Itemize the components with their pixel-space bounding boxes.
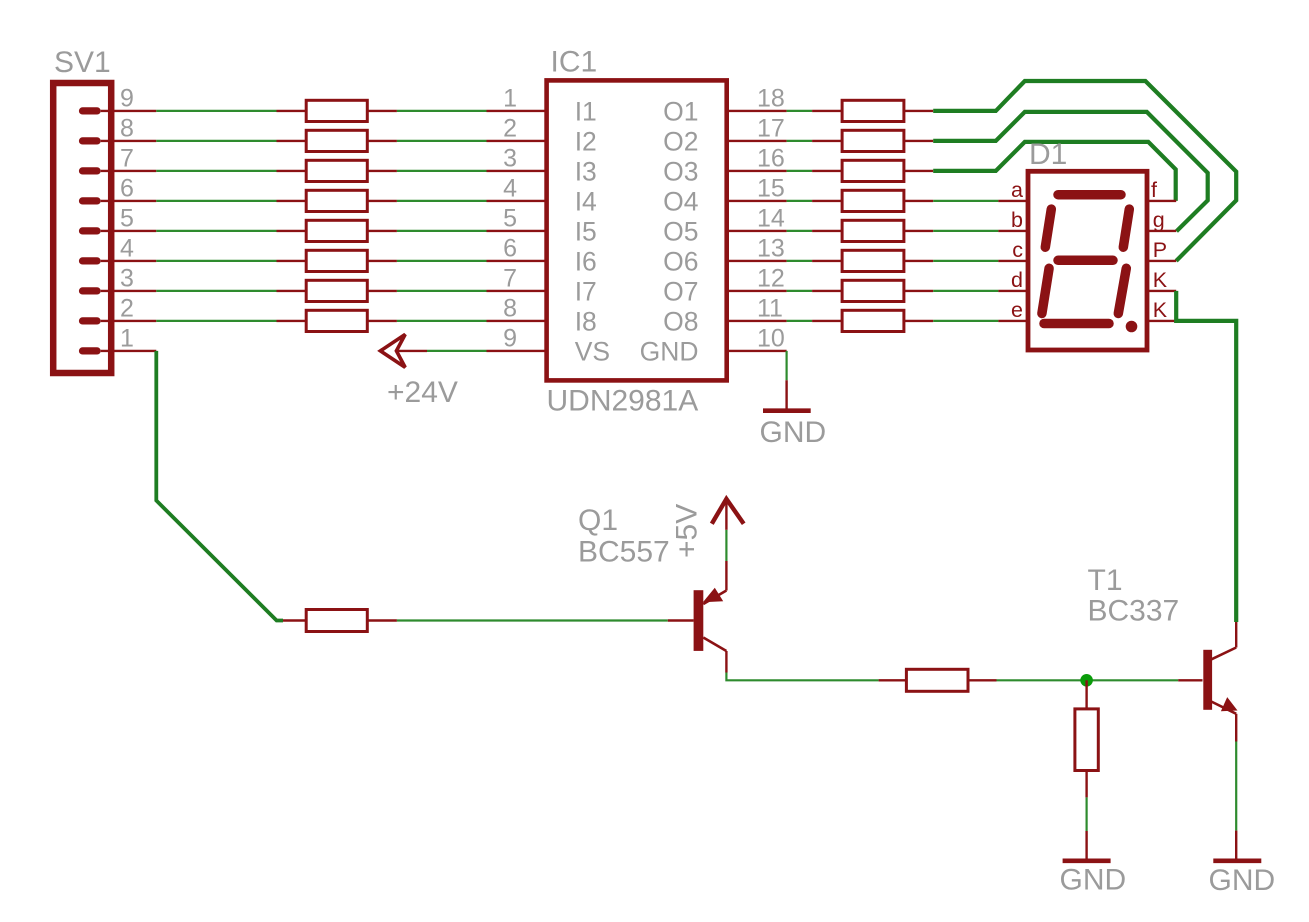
IC1 right pin 12 (O7) [727, 290, 787, 292]
connector SV1 pin 6 pad [79, 197, 156, 204]
svg-text:GND: GND [1209, 864, 1276, 897]
wire net left resistor to IC1 pin 2 [397, 140, 487, 142]
T1 label [1088, 564, 1123, 597]
IC1 pin name GND [640, 336, 699, 366]
svg-text:I2: I2 [575, 126, 597, 156]
IC1 right pin 13 (O6) [727, 260, 787, 262]
transistor T1 base pin [1178, 679, 1202, 681]
svg-text:c: c [1012, 238, 1023, 262]
svg-text:SV1: SV1 [54, 46, 111, 79]
D1 right pin K [1147, 290, 1176, 292]
supply symbol +24V arrow [380, 334, 427, 367]
transistor Q1 body [694, 561, 727, 673]
IC1 pin number 5 [503, 205, 517, 233]
D1 left pin a [998, 200, 1028, 202]
IC1 pin number 14 [757, 205, 785, 233]
IC1 left pin 5 (I5) [487, 230, 547, 232]
svg-text:1: 1 [503, 85, 517, 113]
svg-text:15: 15 [757, 175, 785, 203]
D1 left pin d [998, 290, 1028, 292]
wire net SV1 pin 2 to left resistor row 8 [156, 320, 276, 322]
wire net IC1 pin 16 to right resistor row 3 [787, 170, 813, 172]
wire net right resistor to display pin e [933, 320, 998, 322]
IC1 pin name O7 [663, 276, 698, 306]
svg-text:3: 3 [503, 145, 517, 173]
connector SV1 pin number 8 [120, 115, 134, 143]
IC1 pin name I4 [575, 186, 597, 216]
svg-text:I4: I4 [575, 186, 597, 216]
wire net IC1 pin 15 to right resistor row 4 [787, 200, 813, 202]
op-amp / driver IC1 UDN2981A body [547, 80, 727, 380]
supply label +24V [387, 376, 458, 409]
ground label GND (left bottom) [1060, 864, 1127, 897]
wire net IC1 pin 18 to right resistor row 1 [787, 110, 813, 112]
wire net T1 emitter to ground [1235, 742, 1237, 831]
svg-text:+24V: +24V [387, 376, 458, 409]
IC1 right pin 10 (GND) [727, 350, 787, 352]
wire net IC1 pin 13 to right resistor row 6 [787, 260, 813, 262]
connector SV1 body [53, 83, 111, 373]
connector SV1 pin 9 pad [79, 107, 156, 114]
ground label GND (right bottom) [1209, 864, 1276, 897]
svg-text:I8: I8 [575, 306, 597, 336]
svg-text:I5: I5 [575, 216, 597, 246]
wire net IC1 pin 11 to right resistor row 8 [787, 320, 813, 322]
D1 pin label K [1153, 298, 1168, 322]
IC1 right pin 15 (O4) [727, 200, 787, 202]
wire net SV1 pin 8 to left resistor row 2 [156, 140, 276, 142]
svg-text:a: a [1011, 178, 1023, 202]
svg-text:3: 3 [120, 265, 134, 293]
connector SV1 pin 4 pad [79, 257, 156, 264]
D1 pin label K [1153, 268, 1168, 292]
IC1 left pin 9 (VS) [487, 350, 547, 352]
connector SV1 pin number 1 [120, 325, 134, 353]
svg-text:K: K [1153, 298, 1168, 322]
wire net left resistor to IC1 pin 6 [397, 260, 487, 262]
svg-text:13: 13 [757, 235, 785, 263]
IC1 pin name I5 [575, 216, 597, 246]
supply label +5V (rotated) [671, 504, 704, 558]
Q1 value label BC557 [578, 536, 670, 569]
IC1 pin name O1 [663, 96, 698, 126]
D1 seven segment glyph [1042, 195, 1129, 324]
svg-text:14: 14 [757, 205, 785, 233]
svg-text:4: 4 [120, 235, 134, 263]
connector SV1 label [54, 46, 111, 79]
connector SV1 pin number 6 [120, 175, 134, 203]
svg-text:O5: O5 [663, 216, 698, 246]
D1 pin label c [1012, 238, 1023, 262]
ground symbol GND (below pulldown resistor) [1063, 831, 1111, 861]
connector SV1 pin 2 pad [79, 317, 156, 324]
ground label GND (below IC1) [760, 416, 827, 449]
T1 value label BC337 [1088, 595, 1180, 628]
IC1 pin name O3 [663, 156, 698, 186]
wire net IC1 pin 12 to right resistor row 7 [787, 290, 813, 292]
wire net left resistor to IC1 pin 4 [397, 200, 487, 202]
svg-text:16: 16 [757, 145, 785, 173]
wire net pin17 resistor loop to display pin g [933, 112, 1207, 231]
IC1 pin name O8 [663, 306, 698, 336]
wire net IC1 pin 14 to right resistor row 5 [787, 230, 813, 232]
resistor (right column, row 3) [812, 160, 933, 181]
wire net base resistor to Q1 base [397, 619, 668, 621]
svg-text:I7: I7 [575, 276, 597, 306]
IC1 pin number 1 [503, 85, 517, 113]
IC1 pin number 12 [757, 265, 785, 293]
svg-text:g: g [1153, 208, 1165, 232]
wire net SV1 pin 1 to base resistor of Q1 [156, 351, 283, 621]
svg-text:Q1: Q1 [578, 504, 618, 537]
IC1 pin number 13 [757, 235, 785, 263]
IC1 pin number 10 [757, 325, 785, 353]
svg-text:D1: D1 [1029, 138, 1067, 171]
resistor (right column, row 4) [812, 190, 933, 211]
wire net right resistor to display pin b [933, 230, 998, 232]
svg-text:T1: T1 [1088, 564, 1123, 597]
resistor (right column, row 7) [812, 280, 933, 301]
connector SV1 pin 7 pad [79, 167, 156, 174]
IC1 pin number 2 [503, 115, 517, 143]
resistor (left column, row 1) [277, 100, 397, 121]
svg-text:GND: GND [760, 416, 827, 449]
wire net +24V to IC1 pin 9 [427, 350, 487, 352]
IC1 value label UDN2981A [547, 385, 699, 418]
svg-text:5: 5 [503, 205, 517, 233]
svg-text:f: f [1151, 178, 1157, 202]
svg-text:IC1: IC1 [551, 45, 598, 78]
IC1 pin name O5 [663, 216, 698, 246]
IC1 pin number 15 [757, 175, 785, 203]
svg-text:4: 4 [503, 175, 517, 203]
resistor (right column, row 8) [812, 310, 933, 331]
resistor (T1 base) [879, 669, 997, 691]
IC1 left pin 4 (I4) [487, 200, 547, 202]
svg-text:O6: O6 [663, 246, 698, 276]
wire net left resistor to IC1 pin 8 [397, 320, 487, 322]
wire net right resistor to display pin d [933, 290, 998, 292]
D1 pin label b [1011, 208, 1023, 232]
IC1 pin name I3 [575, 156, 597, 186]
ground symbol GND (below IC1) [763, 380, 811, 410]
connector SV1 pin 1 pad [79, 347, 156, 354]
svg-text:VS: VS [575, 336, 610, 366]
wire net SV1 pin 3 to left resistor row 7 [156, 290, 276, 292]
connector SV1 pin number 7 [120, 145, 134, 173]
connector SV1 pin number 5 [120, 205, 134, 233]
wire net junction to pulldown resistor [1085, 680, 1087, 709]
svg-text:GND: GND [1060, 864, 1127, 897]
IC1 pin number 3 [503, 145, 517, 173]
svg-text:O8: O8 [663, 306, 698, 336]
svg-text:18: 18 [757, 85, 785, 113]
svg-text:I6: I6 [575, 246, 597, 276]
D1 right pin P [1147, 260, 1176, 262]
wire net pin16 resistor loop to display pin f [933, 142, 1175, 201]
D1 right pin f [1147, 200, 1176, 202]
wire net resistor to T1 base [997, 679, 1179, 681]
svg-text:GND: GND [640, 336, 699, 366]
resistor (Q1 base) [283, 610, 397, 632]
resistor (right column, row 2) [812, 130, 933, 151]
connector SV1 pin 3 pad [79, 287, 156, 294]
D1 pin label a [1011, 178, 1023, 202]
transistor Q1 base pin [668, 619, 694, 621]
IC1 pin name I8 [575, 306, 597, 336]
IC1 pin number 16 [757, 145, 785, 173]
svg-text:O3: O3 [663, 156, 698, 186]
svg-text:BC557: BC557 [578, 536, 670, 569]
D1 pin label P [1153, 238, 1167, 262]
wire net IC1 pin 17 to right resistor row 2 [787, 140, 813, 142]
wire net left resistor to IC1 pin 7 [397, 290, 487, 292]
resistor (left column, row 7) [277, 280, 397, 301]
wire net SV1 pin 6 to left resistor row 4 [156, 200, 276, 202]
resistor (left column, row 6) [277, 250, 397, 271]
svg-text:12: 12 [757, 265, 785, 293]
IC1 right pin 17 (O2) [727, 140, 787, 142]
IC1 pin name I1 [575, 96, 597, 126]
IC1 pin number 18 [757, 85, 785, 113]
IC1 left pin 7 (I7) [487, 290, 547, 292]
IC1 pin number 11 [757, 295, 783, 323]
wire net Q1 emitter to +5V [725, 530, 727, 561]
supply symbol +5V arrow [712, 499, 744, 530]
wire net pin18 resistor loop to display pin P [933, 81, 1236, 261]
svg-text:6: 6 [503, 235, 517, 263]
D1 pin label f [1151, 178, 1157, 202]
resistor (right column, row 1) [812, 100, 933, 121]
IC1 left pin 8 (I8) [487, 320, 547, 322]
resistor (right column, row 5) [812, 220, 933, 241]
wire net SV1 pin 5 to left resistor row 5 [156, 230, 276, 232]
svg-text:+5V: +5V [671, 504, 704, 558]
7-segment display D1 body [1028, 171, 1147, 350]
IC1 pin number 6 [503, 235, 517, 263]
svg-text:2: 2 [503, 115, 517, 143]
resistor (right column, row 6) [812, 250, 933, 271]
svg-text:UDN2981A: UDN2981A [547, 385, 699, 418]
wire net display K pins to T1 collector [1176, 291, 1236, 622]
connector SV1 pin number 3 [120, 265, 134, 293]
wire net left resistor to IC1 pin 1 [397, 110, 487, 112]
ground symbol GND (below T1) [1213, 831, 1261, 861]
D1 decimal point [1126, 321, 1138, 333]
svg-text:7: 7 [120, 145, 134, 173]
wire net pulldown resistor to ground [1085, 797, 1087, 831]
D1 right pin K [1147, 320, 1176, 322]
resistor (pulldown, vertical) [1075, 709, 1098, 798]
svg-text:1: 1 [120, 325, 134, 353]
svg-text:8: 8 [120, 115, 134, 143]
wire net right resistor to display pin a [933, 200, 998, 202]
IC1 label [551, 45, 598, 78]
transistor T1 body [1203, 622, 1237, 742]
resistor (left column, row 2) [277, 130, 397, 151]
wire net Q1 collector to coupling resistor [726, 673, 878, 681]
connector SV1 pin number 4 [120, 235, 134, 263]
IC1 pin name I2 [575, 126, 597, 156]
IC1 pin number 7 [503, 265, 517, 293]
connector SV1 pin 8 pad [79, 137, 156, 144]
svg-text:I1: I1 [575, 96, 597, 126]
IC1 right pin 14 (O5) [727, 230, 787, 232]
Q1 label [578, 504, 618, 537]
svg-text:O4: O4 [663, 186, 698, 216]
IC1 right pin 11 (O8) [727, 320, 787, 322]
wire net left resistor to IC1 pin 3 [397, 170, 487, 172]
wire net SV1 pin 7 to left resistor row 3 [156, 170, 276, 172]
svg-text:7: 7 [503, 265, 517, 293]
svg-text:O7: O7 [663, 276, 698, 306]
resistor (left column, row 8) [277, 310, 397, 331]
IC1 pin number 17 [757, 115, 785, 143]
IC1 pin name I6 [575, 246, 597, 276]
svg-text:8: 8 [503, 295, 517, 323]
D1 left pin b [998, 230, 1028, 232]
resistor (left column, row 4) [277, 190, 397, 211]
IC1 pin number 9 [503, 325, 517, 353]
svg-text:11: 11 [757, 295, 783, 323]
D1 label [1029, 138, 1067, 171]
svg-text:e: e [1011, 298, 1023, 322]
svg-text:O1: O1 [663, 96, 698, 126]
svg-text:d: d [1011, 268, 1023, 292]
IC1 pin number 4 [503, 175, 517, 203]
svg-text:I3: I3 [575, 156, 597, 186]
svg-text:6: 6 [120, 175, 134, 203]
wire net right resistor to display pin c [933, 260, 998, 262]
IC1 pin name O2 [663, 126, 698, 156]
IC1 left pin 2 (I2) [487, 140, 547, 142]
D1 pin label g [1153, 208, 1165, 232]
wire net SV1 pin 9 to left resistor row 1 [156, 110, 276, 112]
svg-text:5: 5 [120, 205, 134, 233]
IC1 pin name I7 [575, 276, 597, 306]
svg-text:9: 9 [120, 85, 134, 113]
svg-text:P: P [1153, 238, 1167, 262]
wire net SV1 pin 4 to left resistor row 6 [156, 260, 276, 262]
junction node at T1 base divider [1080, 674, 1093, 687]
svg-text:2: 2 [120, 295, 134, 323]
connector SV1 pin 5 pad [79, 227, 156, 234]
svg-text:O2: O2 [663, 126, 698, 156]
IC1 pin name O4 [663, 186, 698, 216]
svg-text:K: K [1153, 268, 1168, 292]
D1 left pin c [998, 260, 1028, 262]
D1 pin label d [1011, 268, 1023, 292]
IC1 right pin 16 (O3) [727, 170, 787, 172]
IC1 pin number 8 [503, 295, 517, 323]
svg-text:9: 9 [503, 325, 517, 353]
IC1 pin name VS [575, 336, 610, 366]
svg-text:17: 17 [757, 115, 785, 143]
connector SV1 pin number 9 [120, 85, 134, 113]
IC1 left pin 1 (I1) [487, 110, 547, 112]
resistor (left column, row 5) [277, 220, 397, 241]
wire net IC1 pin 10 to ground [785, 351, 787, 380]
wire net left resistor to IC1 pin 5 [397, 230, 487, 232]
D1 left pin e [998, 320, 1028, 322]
IC1 left pin 6 (I6) [487, 260, 547, 262]
svg-text:10: 10 [757, 325, 785, 353]
D1 pin label e [1011, 298, 1023, 322]
resistor (left column, row 3) [277, 160, 397, 181]
connector SV1 pin number 2 [120, 295, 134, 323]
D1 right pin g [1147, 230, 1176, 232]
IC1 left pin 3 (I3) [487, 170, 547, 172]
svg-text:b: b [1011, 208, 1023, 232]
IC1 pin name O6 [663, 246, 698, 276]
svg-text:BC337: BC337 [1088, 595, 1180, 628]
IC1 right pin 18 (O1) [727, 110, 787, 112]
